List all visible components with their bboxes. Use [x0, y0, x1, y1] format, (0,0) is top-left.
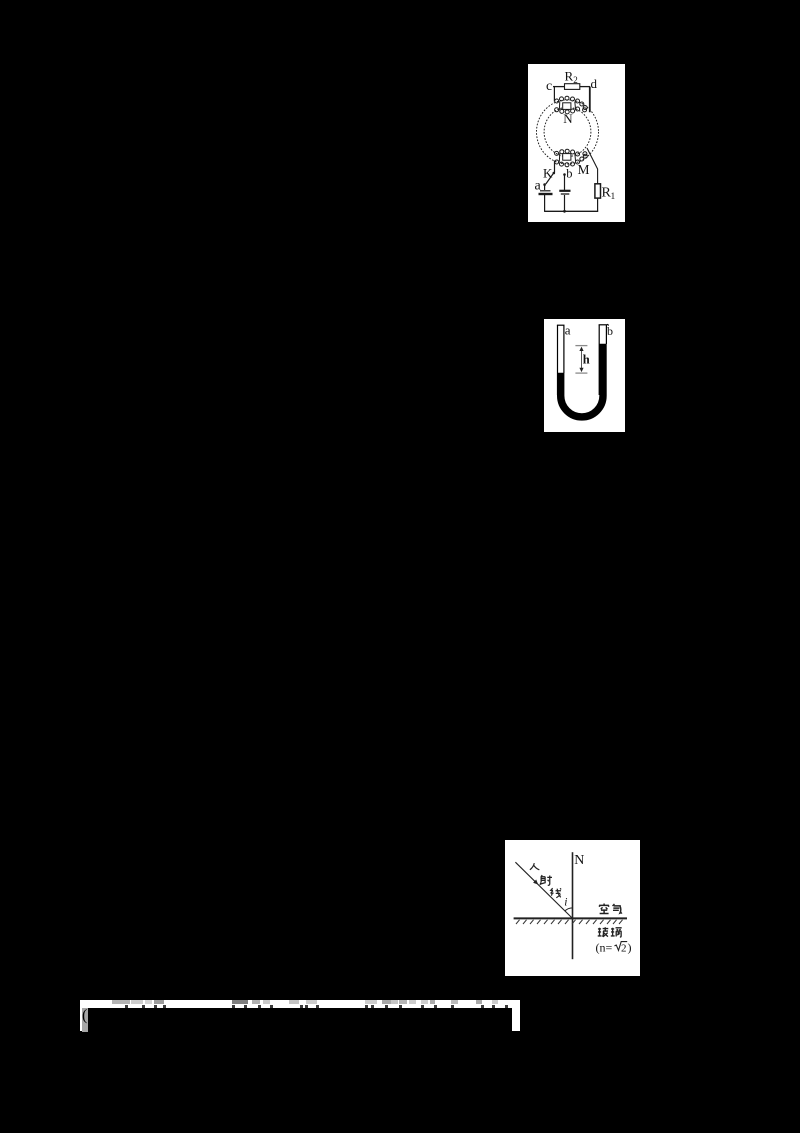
switch K blade	[546, 174, 554, 185]
interface line	[514, 917, 627, 919]
left tube right wall	[563, 325, 565, 373]
CJK glyph 入 (ru)	[530, 863, 539, 870]
primary winding N (top loops)	[555, 96, 588, 114]
rail junction dot	[563, 210, 566, 213]
U-tube manometer figure (white panel)	[544, 319, 625, 432]
mercury column (U shape)	[561, 344, 603, 417]
CJK glyph 线 (xian)	[550, 888, 561, 898]
sqrt radical	[615, 942, 628, 951]
right tube rim	[599, 324, 607, 326]
bottom strip: black text block	[88, 1008, 512, 1032]
CJK text 空气 (air)	[599, 904, 622, 914]
wire battery1 to rail	[544, 195, 546, 211]
battery 1 plates	[540, 190, 551, 192]
svg-text:K: K	[543, 166, 553, 181]
svg-text:2: 2	[573, 75, 578, 85]
wire c down to coil	[553, 87, 555, 102]
h dimension arrow	[581, 349, 583, 371]
right tube left wall	[598, 325, 600, 395]
transformer circuit figure (white panel)	[528, 64, 625, 222]
node b dot	[563, 173, 566, 176]
CJK glyph 射 (she)	[540, 875, 552, 885]
toroid core outer circle	[537, 100, 599, 164]
normal line N	[572, 852, 574, 959]
resistor R1 body	[595, 184, 601, 198]
svg-text:b: b	[566, 167, 572, 181]
bottom strip: parenthesis glyph	[82, 1007, 92, 1029]
bottom strip: gray left column	[82, 1008, 88, 1032]
right tube right wall	[605, 325, 607, 344]
wire a to battery 1	[544, 185, 546, 190]
hatching below interface	[516, 920, 623, 924]
angle i arc	[565, 908, 573, 911]
node a dot	[543, 183, 546, 186]
svg-text:i: i	[564, 897, 567, 909]
svg-text:d: d	[591, 76, 598, 91]
svg-text:1: 1	[611, 192, 616, 202]
svg-text:a: a	[535, 179, 542, 194]
svg-text:h: h	[583, 353, 590, 367]
svg-text:N: N	[574, 853, 584, 868]
bottom text strip: white band	[80, 1000, 520, 1031]
bottom rail wire	[544, 210, 598, 212]
left tube rim	[557, 324, 565, 326]
bottom strip: small dark glyph tips	[80, 1004, 520, 1008]
wire M diagonal to R1	[587, 148, 598, 184]
refraction figure (white panel)	[505, 840, 640, 976]
wire battery2 to rail	[564, 195, 566, 211]
wire d down to coil	[589, 87, 591, 113]
node K dot	[553, 172, 556, 175]
CJK text 玻璃 (glass)	[598, 927, 622, 937]
ray arrowhead	[533, 880, 538, 885]
left tube left wall	[557, 325, 559, 395]
bottom strip: glyph-top marks on band	[80, 1000, 520, 1008]
wire coil bottom-left down to switch	[554, 161, 556, 173]
wire R2 to d	[580, 86, 590, 88]
h dimension ticks	[575, 346, 587, 374]
resistor R2	[565, 84, 580, 90]
toroid core inner circle	[544, 107, 591, 156]
svg-text:(n=: (n=	[596, 941, 613, 955]
battery 2 plates	[559, 190, 570, 192]
svg-text:c: c	[546, 79, 552, 94]
incident ray	[515, 862, 572, 918]
svg-text:): )	[628, 941, 632, 955]
rim tick b	[607, 324, 609, 325]
svg-text:M: M	[578, 162, 590, 177]
svg-text:a: a	[565, 322, 571, 337]
wire R1 to rail	[597, 198, 599, 211]
wire c to R2	[553, 86, 565, 88]
svg-text:2: 2	[621, 943, 627, 955]
svg-text:b: b	[607, 324, 613, 338]
secondary winding M (bottom loops)	[555, 149, 588, 167]
label (n=sqrt2)	[596, 941, 632, 955]
svg-text:R: R	[565, 69, 574, 84]
wire b to battery 2	[564, 175, 566, 191]
svg-text:N: N	[563, 111, 573, 126]
